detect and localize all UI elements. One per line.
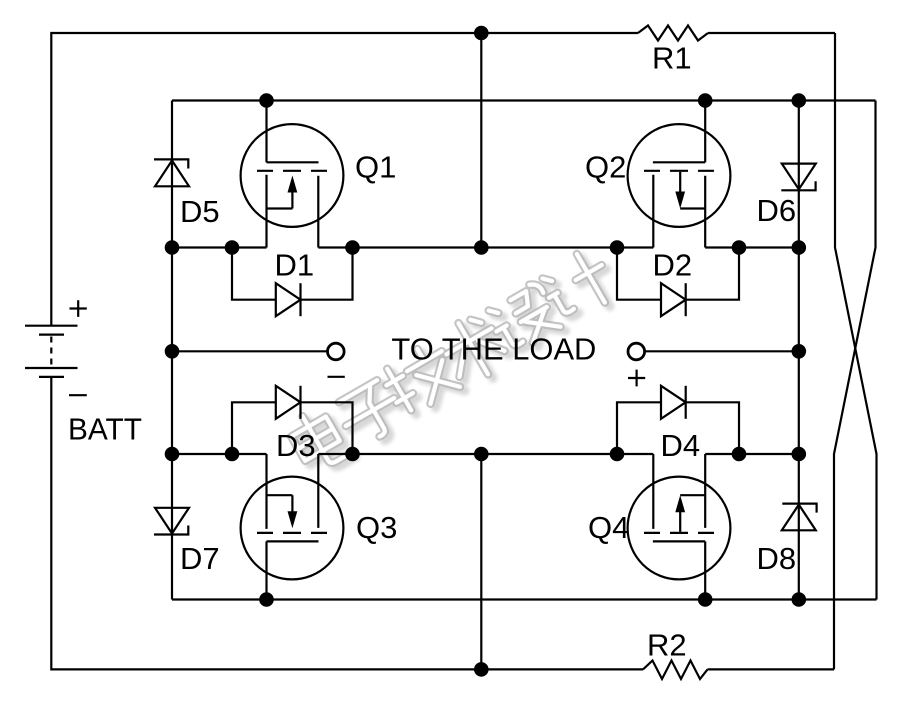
- transistor Q2 (MOSFET, top-right): [628, 101, 731, 248]
- node: top wire / center drop junction: [474, 26, 489, 41]
- svg-text:D3: D3: [276, 428, 316, 463]
- transistor Q4 (MOSFET, bottom-right): [628, 454, 731, 600]
- diode D2 (body diode of Q2): [617, 248, 739, 317]
- svg-text:R1: R1: [652, 41, 692, 76]
- svg-text:D4: D4: [661, 428, 701, 463]
- node: upper mid rail / D2 anode junction: [610, 240, 625, 255]
- svg-text:Q2: Q2: [585, 150, 626, 185]
- wire crossing net A (top wire to bottom inner rail): [835, 33, 877, 600]
- node: load line / right rail junction: [792, 344, 807, 359]
- diode D4 (body diode of Q4): [617, 386, 739, 454]
- node: bottom rail / Q4 gate junction: [698, 592, 713, 607]
- node: upper mid rail / left rail junction: [165, 240, 180, 255]
- wire load line left: [172, 350, 327, 352]
- wire lower mid rail segment center: [318, 453, 653, 455]
- wire right inner rail: [798, 101, 800, 600]
- watermark: [285, 246, 624, 479]
- node: lower mid rail / left rail junction: [165, 447, 180, 462]
- zener diode D7 (left rail, bottom): [154, 508, 189, 535]
- svg-text:Q3: Q3: [356, 510, 397, 545]
- wire bottom outer right (R2 to crossing): [708, 668, 835, 670]
- svg-text:Q4: Q4: [588, 510, 629, 545]
- node: upper mid rail / D2 cathode junction: [732, 240, 747, 255]
- node: top rail / Q2 gate junction: [698, 93, 713, 108]
- node: upper mid rail / right rail junction: [792, 240, 807, 255]
- load terminal left (open circle): [328, 343, 345, 360]
- node: top rail / right rail junction: [792, 93, 807, 108]
- node: bottom wire / center drop junction: [474, 662, 489, 677]
- svg-text:D2: D2: [653, 248, 693, 283]
- diode D3 (body diode of Q3): [232, 386, 353, 454]
- battery minus sign: [69, 394, 87, 396]
- wire bottom inner rail: [172, 598, 877, 600]
- node: upper mid rail / D1 anode junction: [225, 240, 240, 255]
- svg-text:R2: R2: [647, 628, 687, 663]
- load terminal left minus sign: [328, 376, 345, 378]
- wire upper mid rail segment left: [172, 246, 267, 248]
- node: lower mid rail / right rail junction: [792, 447, 807, 462]
- node: upper mid rail / D1 cathode junction: [345, 240, 360, 255]
- zener diode D5 (left rail, top): [154, 159, 189, 186]
- wire lower mid rail segment right: [705, 453, 799, 455]
- wire load line right: [645, 350, 799, 352]
- wire crossing net B (top inner rail to bottom wire): [834, 101, 876, 670]
- load terminal right plus sign: [628, 370, 645, 387]
- load terminal right (open circle): [628, 343, 645, 360]
- diode D1 (body diode of Q1): [232, 248, 353, 317]
- battery plus sign: [70, 300, 87, 317]
- transistor Q3 (MOSFET, bottom-left): [241, 454, 344, 600]
- node: load line / left rail junction: [165, 344, 180, 359]
- node: upper mid rail / center drop junction: [474, 240, 489, 255]
- node: top rail / Q1 gate junction: [259, 93, 274, 108]
- battery BATT: [25, 326, 78, 377]
- svg-text:Q1: Q1: [355, 150, 396, 185]
- wire center drop from top wire to upper mid rail: [480, 33, 482, 248]
- zener diode D8 (right rail, bottom): [782, 504, 817, 531]
- svg-text:D8: D8: [757, 541, 797, 576]
- wire upper mid rail segment center: [318, 246, 653, 248]
- resistor R1: [638, 26, 708, 41]
- svg-text:D5: D5: [180, 194, 220, 229]
- wire top rail right (R1 to right drop): [708, 32, 835, 34]
- node: bottom rail / Q3 gate junction: [259, 592, 274, 607]
- transistor Q1 (MOSFET, top-left): [241, 101, 344, 248]
- resistor R2: [643, 661, 708, 680]
- node: lower mid rail / center drop junction: [474, 447, 489, 462]
- wire top rail left (battery + to R1): [51, 33, 638, 326]
- svg-text:D7: D7: [180, 541, 220, 576]
- wire bottom outer left (battery - to R2): [51, 377, 643, 669]
- wire lower mid rail segment left: [172, 453, 267, 455]
- wire center drop from lower mid rail to bottom wire: [480, 454, 482, 669]
- svg-text:TO THE LOAD: TO THE LOAD: [391, 332, 596, 367]
- svg-text:D1: D1: [275, 248, 315, 283]
- svg-text:BATT: BATT: [68, 412, 142, 447]
- node: bottom rail / right rail junction: [792, 592, 807, 607]
- node: lower mid rail / D3 cathode junction: [345, 447, 360, 462]
- wire left inner rail: [171, 101, 173, 600]
- wire top inner rail: [172, 99, 876, 101]
- node: lower mid rail / D4 cathode junction: [732, 447, 747, 462]
- svg-text:D6: D6: [757, 193, 797, 228]
- node: lower mid rail / D4 anode junction: [610, 447, 625, 462]
- zener diode D6 (right rail, top): [781, 164, 816, 191]
- node: lower mid rail / D3 anode junction: [225, 447, 240, 462]
- wire upper mid rail segment right: [705, 246, 799, 248]
